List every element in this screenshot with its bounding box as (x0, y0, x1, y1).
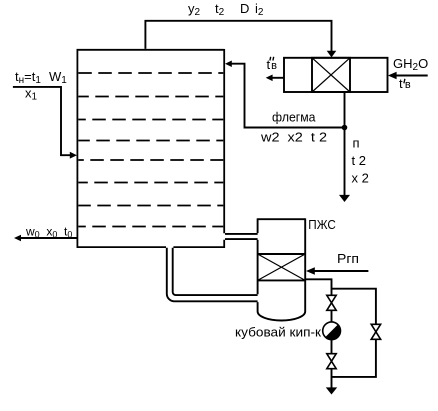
reflux line back to column (231, 64, 345, 128)
cooling water outlet arrow (266, 75, 273, 82)
svg-text:D: D (240, 1, 249, 16)
condensate line from condenser (344, 92, 346, 196)
junction node (reflux split) (342, 125, 348, 131)
svg-text:Ргп: Ргп (337, 251, 359, 266)
heating steam arrow (306, 267, 315, 274)
vapor arrow into condenser (327, 51, 337, 58)
pump (kubovoy kip-k circulation pump) (323, 322, 341, 340)
cooling water inlet arrow (388, 72, 397, 79)
svg-text:w0 x0 t0: w0 x0 t0 (25, 225, 72, 240)
label p t2 x2 (distillate) (352, 136, 369, 186)
feed line (13, 87, 71, 155)
condenser shell (284, 58, 388, 92)
reboiler outlet line to pump (305, 279, 331, 388)
svg-text:ПЖС: ПЖС (308, 217, 336, 232)
cooling water outlet line (272, 77, 284, 79)
bottoms product arrow (14, 235, 21, 242)
feed arrow into column (70, 152, 77, 159)
valve V2 (below pump) (327, 354, 336, 369)
condenser tube bundle X-box (312, 58, 350, 92)
bottoms discharge arrow down (326, 387, 337, 394)
heating steam line Rgp (314, 270, 368, 272)
liquid downcomer pipe column to reboiler (double line with bends) (167, 248, 258, 301)
distillate arrow down (339, 195, 350, 202)
vapor overhead line (145, 21, 331, 52)
bypass branch line (332, 289, 376, 377)
svg-text:tв: tв (267, 57, 278, 72)
valve V1 (above pump) (327, 295, 336, 310)
svg-text:GH2O: GH2O (393, 56, 428, 73)
column trays (dashed) (78, 73, 223, 227)
svg-text:t 2: t 2 (352, 153, 366, 168)
cooling water inlet line GH2O (396, 75, 428, 77)
feed label tn=t1 W1 over x1 (15, 69, 67, 103)
vapor pipe reboiler to column (double line) (225, 234, 258, 239)
reboiler vessel PZhS shell (258, 218, 306, 320)
svg-text:кубовай кип-к: кубовай кип-к (235, 324, 321, 339)
label y2 t2 D i2 (188, 1, 264, 18)
reboiler heating element X-box (258, 254, 306, 280)
svg-text:tв: tв (399, 76, 411, 91)
reflux arrow into column (225, 61, 232, 68)
svg-text:флегма: флегма (272, 110, 316, 125)
svg-text:w2 x2 t 2: w2 x2 t 2 (260, 130, 327, 145)
bottoms product line (20, 237, 77, 239)
svg-text:x 2: x 2 (352, 171, 369, 186)
svg-text:п: п (353, 136, 360, 151)
column K1 shell (77, 49, 225, 248)
valve V3 (bypass branch) (371, 324, 380, 339)
